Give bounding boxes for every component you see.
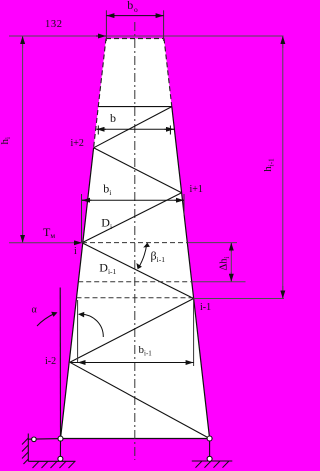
- svg-text:i+2: i+2: [71, 138, 84, 149]
- svg-text:i+1: i+1: [190, 184, 203, 195]
- svg-text:о: о: [134, 5, 138, 14]
- svg-text:i-1: i-1: [200, 302, 211, 313]
- svg-text:i-2: i-2: [45, 356, 56, 367]
- svg-text:132: 132: [45, 19, 63, 30]
- svg-text:i: i: [74, 246, 77, 257]
- svg-text:Δhi: Δhi: [219, 256, 232, 270]
- svg-text:b: b: [127, 0, 133, 12]
- svg-text:α: α: [32, 305, 38, 316]
- svg-text:b: b: [110, 111, 116, 125]
